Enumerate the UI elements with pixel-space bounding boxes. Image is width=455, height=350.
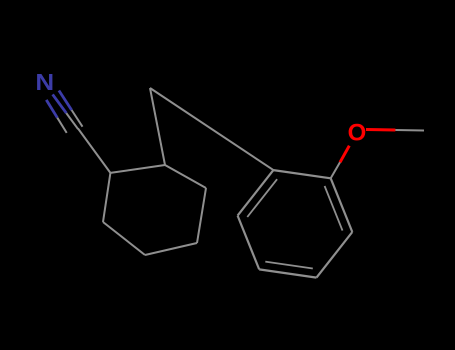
chain long bond to benzene bbox=[150, 88, 273, 170]
nitrile triple bond C#N bbox=[59, 91, 72, 111]
O-ring bond gray half bbox=[331, 162, 340, 178]
benzene ring bbox=[273, 170, 330, 178]
O-ring bond red half bbox=[340, 146, 349, 163]
bond nitrile-C to alpha C bbox=[78, 129, 110, 173]
aromatic inner line 2 bbox=[265, 262, 313, 269]
svg-text:O: O bbox=[348, 120, 367, 147]
cyclohexane edge 5 bbox=[165, 165, 206, 188]
cyclohexane edge 4 bbox=[197, 188, 206, 243]
chain bond up bbox=[150, 88, 165, 165]
cyclohexane edge 1 bbox=[103, 173, 110, 222]
cyclohexane edge 2 bbox=[103, 222, 145, 255]
cyclohexane edge 6 bbox=[110, 165, 165, 173]
svg-text:N: N bbox=[35, 70, 54, 95]
O-CH3 bond red half bbox=[366, 128, 395, 132]
aromatic inner line 1 bbox=[247, 179, 277, 217]
aromatic inner line 3 bbox=[325, 186, 343, 231]
O-CH3 bond gray half bbox=[395, 129, 424, 132]
cyclohexane edge 3 bbox=[145, 243, 197, 255]
